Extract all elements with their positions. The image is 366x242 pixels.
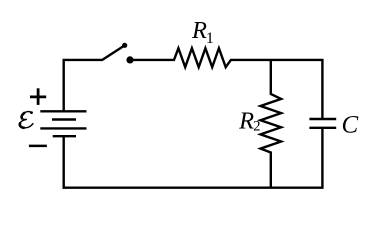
svg-text:R: R: [238, 107, 254, 134]
svg-text:R: R: [191, 17, 207, 44]
svg-text:2: 2: [253, 119, 260, 135]
svg-text:1: 1: [206, 30, 214, 47]
svg-text:C: C: [342, 111, 359, 138]
